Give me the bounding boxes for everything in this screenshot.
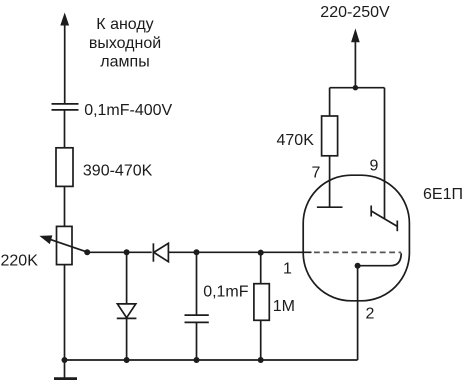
tube envelope 6E1P — [303, 175, 409, 301]
potentiometer 220K body — [57, 226, 73, 264]
junction dot D2 top — [124, 249, 130, 255]
junction dot cathode — [355, 263, 361, 269]
svg-text:2: 2 — [366, 306, 375, 323]
junction dot bus C2 — [194, 357, 200, 363]
svg-text:6Е1П: 6Е1П — [423, 186, 463, 203]
junction dot bus D2 — [124, 357, 130, 363]
ground — [54, 360, 77, 379]
pin 2 cathode hook — [358, 253, 402, 266]
capacitor C2 0,1mF — [185, 252, 209, 360]
junction dot bus ground — [62, 357, 68, 363]
bottom bus wire — [65, 359, 358, 361]
svg-text:К аноду: К аноду — [96, 16, 153, 33]
svg-text:1M: 1M — [273, 298, 295, 315]
svg-text:9: 9 — [370, 158, 379, 175]
wire pot bottom to bus — [64, 265, 66, 360]
svg-text:390-470K: 390-470K — [83, 163, 153, 180]
svg-text:лампы: лампы — [100, 53, 149, 70]
pin 1 grid dashed line — [314, 251, 401, 253]
arrow to anode of output tube — [60, 13, 69, 104]
junction dot supply — [353, 85, 358, 90]
svg-text:1: 1 — [283, 261, 292, 278]
resistor R1 390-470K — [56, 148, 73, 187]
junction dot R2 top — [258, 250, 264, 256]
junction dot C2 top — [194, 249, 200, 255]
potentiometer wiper arrow — [39, 235, 87, 252]
svg-text:470K: 470K — [277, 132, 315, 149]
pin 7 target electrode bar — [317, 206, 343, 208]
main node wire (wiper to tube) — [87, 251, 311, 253]
junction dot wiper node — [84, 249, 90, 255]
pin 9 deflection electrode — [371, 206, 397, 232]
svg-text:220K: 220K — [1, 252, 39, 269]
junction dot bus R2 — [258, 357, 264, 363]
wire pin 2 to bus — [357, 266, 359, 360]
supply arrow 220-250V — [351, 28, 360, 87]
svg-text:выходной: выходной — [89, 35, 161, 52]
wire C1 to R1 — [64, 111, 66, 149]
svg-text:0,1mF-400V: 0,1mF-400V — [84, 102, 172, 119]
wire jumper to pin 9 — [384, 88, 386, 219]
wire jumper to R3 — [329, 88, 331, 116]
svg-text:220-250V: 220-250V — [320, 4, 390, 21]
svg-text:0,1mF: 0,1mF — [203, 283, 249, 300]
wire R3 to pin 7 — [329, 156, 331, 207]
wire R1 to potentiometer — [64, 186, 66, 226]
resistor R3 470K — [322, 116, 338, 156]
svg-text:7: 7 — [312, 165, 321, 182]
diode D2 (vertical) — [117, 252, 137, 360]
capacitor C1 0,1mF-400V — [52, 104, 79, 110]
resistor R2 1M — [254, 252, 269, 360]
diode D1 (horizontal) — [153, 243, 168, 261]
top jumper wire — [330, 87, 385, 89]
